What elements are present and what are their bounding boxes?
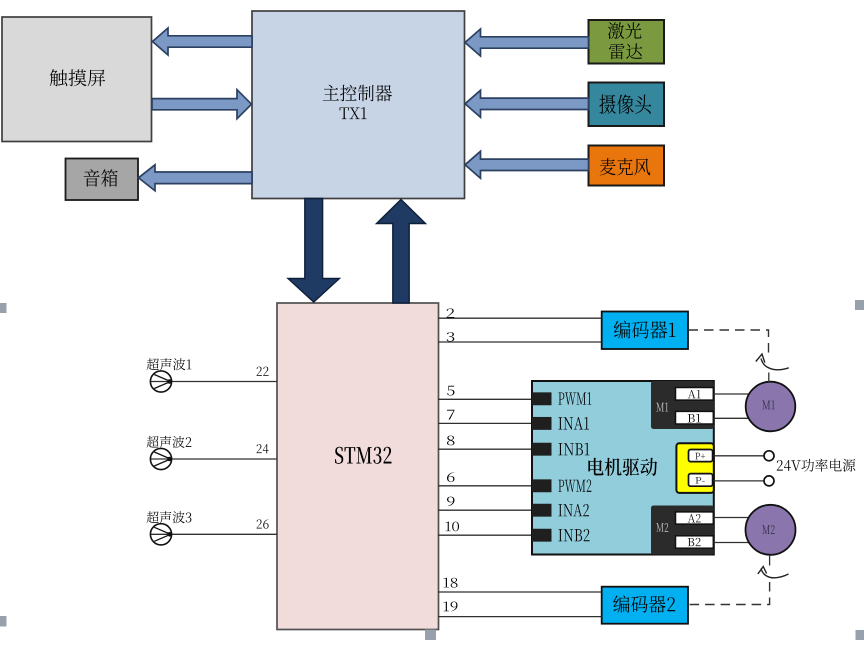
terminal A1 [676,388,714,401]
arrow STM32 to controller (up) [377,200,426,304]
arrow camera to controller [465,90,589,117]
block STM32 [277,303,439,630]
driver pin PWM2 [532,479,552,492]
terminal B2 [676,536,714,548]
arrow controller to STM32 (down) [288,199,339,303]
wire pin 2 [438,317,602,319]
selection handle left-bottom [0,616,7,627]
block touchscreen 触摸屏 [2,17,152,142]
wire P+ to terminal [714,455,765,457]
driver pin PWM1 [532,392,552,405]
wire B1 to motor M1 [714,417,753,419]
connector block M2 [651,506,714,555]
label 24V power supply 24V功率电源 [777,459,856,472]
power terminal - [764,476,774,486]
wire pin 7 [438,422,533,424]
arrow microphone to controller [465,151,589,178]
dashed link encoder1 to motor M1 [689,330,769,356]
rotation arrow M1 [761,359,789,370]
terminal B1 [676,411,714,424]
rotation arrow M2 [761,569,789,578]
selection handle right-bottom [856,630,864,640]
driver pin INA2 [532,504,552,517]
wire A2 to motor M2 [714,517,753,519]
wire A1 to motor M1 [714,393,753,395]
selection handle right-top [855,300,864,310]
wire pin 8 [438,448,533,450]
selection handle left-top [0,303,7,313]
wire pin 9 [438,509,533,511]
wire P- to terminal [714,480,765,482]
wire B2 to motor M2 [714,542,753,544]
wire pin 3 [438,341,602,343]
driver pin INB1 [532,443,552,456]
motor M2 [746,505,796,555]
arrow controller to speaker [139,165,253,191]
wire pin 6 [438,485,533,487]
ultrasonic sensor 超声波3 [147,511,192,523]
power terminal + [764,451,774,461]
ultrasonic sensor 超声波2 [147,436,192,448]
arrow touchscreen to controller [152,90,252,119]
terminal A2 [676,512,714,524]
dashed link encoder2 to motor M2 [769,555,771,566]
wire pin 19 [438,616,602,618]
power block P [676,443,713,493]
block motor driver 电机驱动 [532,381,714,555]
wire pin 18 [438,591,602,593]
wire pin 5 [438,398,533,400]
terminal P- [689,474,713,487]
arrow controller to touchscreen [153,28,253,55]
wire pin 10 [438,534,533,536]
block main controller 主控制器 TX1 [252,11,465,199]
block camera 摄像头 [589,83,665,127]
selection handle bottom-center [425,630,436,641]
driver pin INA1 [532,417,552,430]
block encoder2 编码器2 [602,587,688,624]
arrow lidar to controller [465,29,589,56]
ultrasonic sensor 超声波1 [147,358,192,370]
terminal P+ [689,450,713,462]
block speaker 音箱 [66,159,139,201]
block encoder1 编码器1 [602,312,688,350]
block microphone 麦克风 [589,146,665,186]
driver pin INB2 [532,529,552,542]
block lidar 激光雷达 [589,20,665,64]
motor M1 [746,382,796,432]
connector block M1 [651,381,714,429]
